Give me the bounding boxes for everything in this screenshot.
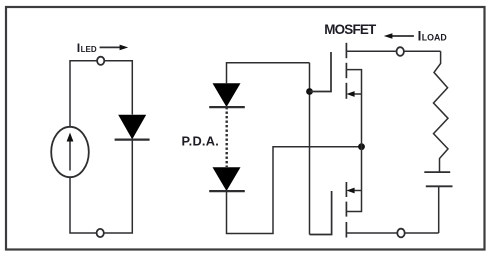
node (input terminal top) [97,57,104,65]
wire (P.D.A. anode to gate feed) [227,63,310,83]
svg-text:LOAD: LOAD [422,33,447,43]
current source CC1 [51,127,89,177]
svg-text:LED: LED [81,45,97,54]
node (output terminal top) [400,50,441,52]
node (input terminal bottom) [97,229,104,237]
arrow (ILED direction) [100,45,129,51]
svg-text:I: I [418,29,422,44]
MOSFET Q2 (lower) [310,147,401,238]
wire (input loop bottom) [70,140,132,233]
junction (common source node) [358,143,365,150]
wire (P.D.A. cathode return to source node) [227,147,362,234]
body arrow of Q1 [353,93,362,95]
label ILOAD [418,29,447,44]
drain terminal of Q1 [346,50,400,52]
wire (battery negative to output bottom) [438,186,440,233]
label ILED [77,41,97,55]
svg-text:P.D.A.: P.D.A. [182,133,220,148]
junction (gate node) [306,88,313,95]
source terminal of Q2 [346,147,361,212]
wire (gate feed vertical) [309,63,311,235]
channel segments of Q1 [345,43,347,58]
source terminal of Q1 [346,70,361,147]
LED D1 [115,115,150,140]
svg-text:MOSFET: MOSFET [324,22,377,37]
gate of Q2 [310,191,332,235]
photodiode D2 (P.D.A. top) [209,83,245,107]
node (output terminal bottom) [400,232,439,234]
MOSFET Q1 (upper) [310,43,401,147]
resistor R-load [434,51,449,172]
body arrow of Q2 [353,190,362,192]
arrow (ILOAD direction) [384,33,414,39]
battery B1 [424,172,452,186]
channel segments of Q2 [345,182,347,197]
wire (input loop top) [70,61,132,127]
gate of Q1 [310,52,332,92]
drain terminal of Q2 [346,232,400,234]
dotted continuation (P.D.A. stack) [225,107,227,167]
photodiode D3 (P.D.A. bottom) [209,167,245,191]
